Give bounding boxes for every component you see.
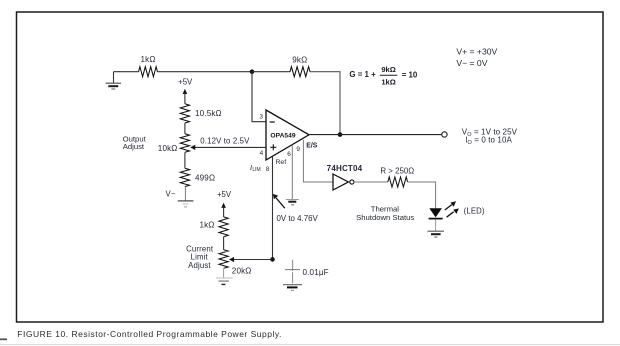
svg-text:1kΩ: 1kΩ bbox=[140, 55, 155, 64]
gain formula G = 1 + 9k/1k = 10 bbox=[349, 65, 417, 87]
ground (LED) bbox=[428, 230, 444, 232]
wire: 10.5k to pot bbox=[184, 123, 186, 134]
svg-text:9kΩ: 9kΩ bbox=[292, 55, 307, 64]
wire: 9k to feedback corner bbox=[310, 72, 340, 135]
+5V supply (current limit) bbox=[217, 190, 232, 217]
svg-text:20kΩ: 20kΩ bbox=[232, 267, 252, 276]
capacitor C1 0.01uF bbox=[285, 260, 300, 284]
caption left rule stub bbox=[0, 338, 7, 340]
resistor 499Ohm bbox=[180, 168, 189, 186]
svg-text:Ref: Ref bbox=[276, 159, 287, 166]
output terminal (open circle) bbox=[442, 132, 447, 137]
svg-text:1kΩ: 1kΩ bbox=[381, 77, 396, 86]
svg-text:74HCT04: 74HCT04 bbox=[327, 164, 363, 173]
wire: op-amp output bbox=[309, 134, 441, 136]
resistor 1kOhm (input) bbox=[139, 67, 158, 77]
node B (output junction dot) bbox=[338, 132, 343, 137]
svg-text:Adjust: Adjust bbox=[188, 261, 211, 270]
wire: pot to 499 resistor bbox=[184, 152, 186, 168]
LED D1 bbox=[429, 201, 459, 218]
svg-text:6: 6 bbox=[287, 151, 291, 158]
label Output Adjust bbox=[123, 135, 147, 151]
wire: pot wiper to +IN (pin 4) bbox=[195, 146, 267, 148]
annotation arrow to ILIM wire bbox=[273, 194, 285, 208]
resistor R > 250Ohm bbox=[388, 177, 408, 187]
svg-text:1kΩ: 1kΩ bbox=[199, 221, 214, 230]
wire: ILIM pin 8 down bbox=[272, 156, 274, 257]
ground (Ref) bbox=[286, 200, 299, 205]
op-amp U1 OPA549 bbox=[266, 110, 309, 160]
svg-text:Shutdown Status: Shutdown Status bbox=[356, 213, 414, 222]
wire: LED to ground bbox=[435, 219, 437, 230]
svg-text:R > 250Ω: R > 250Ω bbox=[380, 166, 414, 175]
resistor 10.5kOhm bbox=[180, 104, 189, 123]
svg-text:V− = 0V: V− = 0V bbox=[456, 58, 487, 68]
svg-text:4: 4 bbox=[260, 150, 264, 157]
ground (current limit pot) bbox=[216, 278, 233, 284]
svg-text:G = 1 +: G = 1 + bbox=[349, 70, 376, 79]
wire: resistor to LED bbox=[408, 182, 436, 208]
inverter U2 74HCT04 bbox=[333, 174, 354, 190]
svg-text:10.5kΩ: 10.5kΩ bbox=[195, 109, 222, 118]
potentiometer 10kOhm (Output Adjust) bbox=[180, 134, 195, 153]
svg-text:E/S: E/S bbox=[306, 143, 318, 150]
wire: node A down to inverting input bbox=[252, 72, 266, 122]
label Current Limit Adjust bbox=[186, 245, 214, 271]
wire: 499 to V- rail bbox=[184, 187, 186, 201]
ground (capacitor) bbox=[283, 285, 302, 291]
svg-text:0.12V to 2.5V: 0.12V to 2.5V bbox=[200, 136, 250, 145]
wire: E/S pin 9 to inverter input bbox=[303, 140, 333, 182]
svg-text:0V to 4.76V: 0V to 4.76V bbox=[277, 214, 319, 223]
svg-text:499Ω: 499Ω bbox=[195, 173, 215, 182]
wire: inverter output to resistor bbox=[354, 181, 388, 183]
svg-text:3: 3 bbox=[259, 114, 263, 121]
wire: ground to 1k resistor bbox=[114, 71, 139, 73]
svg-text:+5V: +5V bbox=[217, 190, 232, 199]
resistor 9kOhm (feedback) bbox=[290, 67, 310, 77]
svg-text:(LED): (LED) bbox=[464, 207, 485, 216]
svg-text:+5V: +5V bbox=[178, 78, 193, 87]
wire: node A to 9k resistor bbox=[252, 71, 290, 73]
svg-text:LIM: LIM bbox=[252, 167, 260, 173]
svg-text:OPA549: OPA549 bbox=[270, 133, 295, 140]
svg-text:V+ = +30V: V+ = +30V bbox=[456, 46, 497, 56]
label Thermal Shutdown Status bbox=[356, 205, 414, 222]
bottom separator rule bbox=[0, 344, 620, 346]
svg-text:V−: V− bbox=[166, 190, 176, 199]
svg-text:Adjust: Adjust bbox=[123, 142, 145, 151]
svg-text:= 10: = 10 bbox=[402, 70, 418, 79]
node A (junction dot) bbox=[250, 69, 255, 74]
ground (input) bbox=[106, 72, 122, 89]
svg-text:9: 9 bbox=[296, 146, 300, 153]
svg-text:10kΩ: 10kΩ bbox=[158, 144, 178, 153]
resistor 1kOhm (current limit) bbox=[219, 217, 228, 237]
wire: 20k wiper to node C bbox=[234, 259, 273, 261]
node C (ILIM junction dot) bbox=[270, 257, 275, 262]
wire: 1k to 20k pot bbox=[223, 237, 225, 250]
V- supply rail bbox=[178, 201, 194, 207]
wire: Ref pin 6 to ground bbox=[291, 145, 293, 200]
wire: 20k pot to ground bbox=[223, 268, 225, 277]
svg-text:0.01μF: 0.01μF bbox=[303, 268, 329, 277]
potentiometer 20kOhm (Current Limit Adjust) bbox=[219, 250, 234, 269]
svg-text:8: 8 bbox=[266, 166, 270, 173]
svg-text:FIGURE 10. Resistor-Controlled: FIGURE 10. Resistor-Controlled Programma… bbox=[17, 329, 282, 339]
wire: 1k to node A bbox=[158, 71, 253, 73]
+5V supply (output adjust) bbox=[178, 78, 193, 104]
svg-text:9kΩ: 9kΩ bbox=[381, 65, 396, 74]
